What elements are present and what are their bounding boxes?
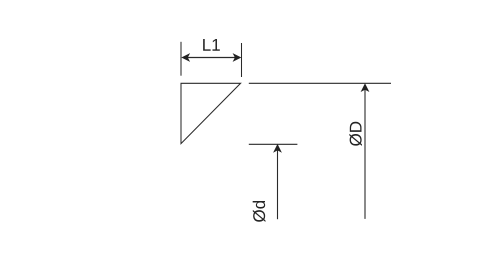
arrowhead OD up <box>361 83 370 92</box>
arrowhead L1 right <box>233 53 242 62</box>
small diameter reference line <box>249 143 298 145</box>
dimension extension line left <box>180 42 182 76</box>
arrowhead L1 left <box>181 53 190 62</box>
label L1 <box>203 39 220 51</box>
top surface line <box>249 82 391 84</box>
dimension line L1 <box>188 57 236 59</box>
label Od rotated <box>253 201 266 222</box>
dimension extension line right <box>241 43 243 77</box>
leader line OD <box>364 89 366 219</box>
label OD rotated <box>349 122 362 146</box>
chamfer triangle <box>181 83 241 143</box>
leader line Od <box>277 150 279 219</box>
arrowhead Od up <box>273 144 282 153</box>
